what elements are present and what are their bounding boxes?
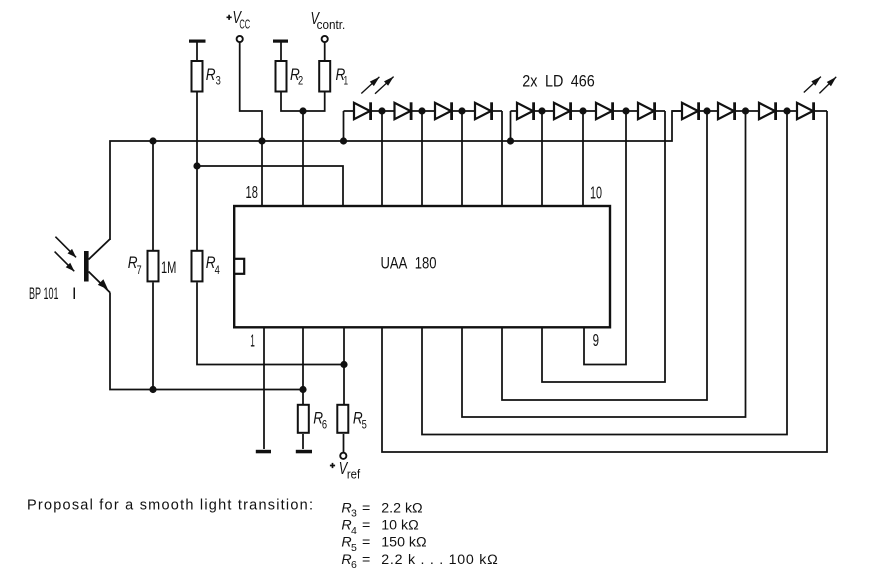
resistor R1 [319, 61, 330, 92]
node LED D9-D10 [703, 107, 710, 114]
wire pin9 loop [584, 111, 626, 365]
node LED D5-D6 [538, 107, 545, 114]
IC U1 UAA180 body [234, 206, 610, 327]
wire R7 top lead [152, 141, 154, 250]
wire pin5 loop [422, 111, 787, 435]
node LED D10-D11 [742, 107, 749, 114]
LED D3 [435, 103, 451, 119]
wire pin1 to ground [263, 326, 265, 449]
node emitter-pin2 [299, 386, 306, 393]
resistor R3 [192, 61, 203, 92]
svg-text:6: 6 [322, 419, 327, 431]
node emitter-R7 [149, 386, 156, 393]
wire emitter net y=389.5 [110, 293, 303, 390]
wire LED group2 anode to rail [510, 111, 512, 141]
svg-text:4: 4 [351, 525, 357, 537]
wire pin15 [381, 111, 383, 206]
svg-text:=: = [362, 535, 370, 551]
svg-text:7: 7 [137, 265, 142, 277]
wire pin8 loop [542, 111, 665, 382]
svg-text:6: 6 [351, 559, 357, 570]
svg-text:18: 18 [246, 182, 258, 202]
svg-text:4: 4 [215, 265, 221, 277]
svg-text:UAA 180: UAA 180 [381, 254, 437, 273]
LED D6 [554, 103, 570, 119]
wire pin17 from R1/R2 node [302, 111, 304, 206]
LED D9 [682, 103, 698, 119]
label +Vcc [227, 15, 232, 20]
svg-text:=: = [362, 501, 370, 517]
node R4-pin3 [340, 361, 347, 368]
terminal +Vref [340, 453, 346, 459]
terminal Vcontr [322, 36, 328, 42]
LED D11 [759, 103, 775, 119]
wire +Vcc terminal drop [240, 42, 262, 142]
svg-text:2x LD 466: 2x LD 466 [522, 73, 595, 91]
resistor R4 [192, 251, 203, 282]
svg-text:2.2 k . . . 100 kΩ: 2.2 k . . . 100 kΩ [381, 552, 498, 568]
svg-text:=: = [362, 518, 370, 534]
node LED D3-D4 [458, 107, 465, 114]
node rail-Vcc [258, 137, 265, 144]
wire VCC rail y=141 [110, 111, 682, 240]
LED D7 [596, 103, 612, 119]
terminal +Vcc [237, 36, 243, 42]
label +Vref [330, 463, 335, 468]
svg-text:Proposal for a smooth light tr: Proposal for a smooth light transition: [27, 498, 313, 514]
node LED D11-D12 [783, 107, 790, 114]
node rail-anode1 [340, 137, 347, 144]
node R1R2-pin17 [299, 107, 306, 114]
wire pin11 [541, 111, 543, 206]
IC U1 index tab [234, 259, 244, 274]
LED D8 [638, 103, 654, 119]
node LED D1-D2 [378, 107, 385, 114]
wire R2 stems [280, 41, 282, 60]
wire pin3 to R5 [343, 326, 345, 404]
wire pin12 [501, 111, 503, 206]
LED emission arrows left pair [361, 77, 379, 94]
wire pin2 to R6 [302, 326, 304, 404]
LED D12 [797, 103, 813, 119]
resistor R6 [298, 405, 309, 433]
resistor R2 [276, 61, 287, 92]
resistor R5 [337, 405, 348, 433]
wire LED group1 anode to rail [343, 111, 345, 141]
node R3R4-pin16 [193, 162, 200, 169]
svg-text:CC: CC [239, 16, 250, 31]
resistor R7 [148, 251, 159, 282]
svg-text:10: 10 [590, 183, 602, 203]
wire pin13 [461, 111, 463, 206]
node LED D2-D3 [418, 107, 425, 114]
LED D1 [354, 103, 370, 119]
svg-text:I: I [72, 285, 77, 303]
LED D2 [395, 103, 411, 119]
svg-text:1: 1 [344, 76, 349, 88]
LED D5 [517, 103, 533, 119]
svg-text:=: = [362, 552, 370, 568]
svg-text:1M: 1M [161, 258, 176, 277]
wire LED chain group1 [344, 110, 503, 112]
wire pin16 from R3/R4 node y=166 [197, 166, 343, 206]
wire LED chain group3 [672, 110, 827, 112]
svg-text:5: 5 [351, 542, 357, 554]
svg-text:3: 3 [216, 76, 221, 88]
wire R6 bottom to ground [302, 434, 304, 449]
svg-text:contr.: contr. [317, 17, 346, 32]
wire pin4 loop [382, 111, 827, 452]
transistor Q1 BP101 collector lead [89, 239, 111, 260]
ground R6 [296, 450, 312, 454]
svg-text:5: 5 [362, 419, 367, 431]
photo arrows into Q1 [55, 237, 76, 258]
svg-text:9: 9 [593, 330, 599, 350]
wire R1 stems [324, 42, 326, 61]
svg-text:1: 1 [250, 331, 255, 351]
svg-text:3: 3 [351, 508, 357, 520]
wire R7 bottom lead [152, 283, 154, 390]
ground pin1 [256, 450, 271, 454]
LED D4 [475, 103, 491, 119]
wire pin6 loop [462, 111, 746, 417]
wire pin7 loop [502, 111, 707, 400]
wire pin10 [582, 111, 584, 206]
wire pin14 [421, 111, 423, 206]
wire R3 bottom to R4 top (crosses rail) [196, 93, 198, 251]
node rail-anode2 [507, 137, 514, 144]
svg-text:10 kΩ: 10 kΩ [381, 518, 418, 534]
svg-text:R: R [206, 66, 216, 84]
node LED D6-D7 [579, 107, 586, 114]
wire LED chain group2 [511, 110, 666, 112]
node rail-R7 [149, 137, 156, 144]
wire R5 bottom to Vref [343, 434, 345, 453]
wire pin18 [261, 141, 263, 206]
node LED D7-D8 [622, 107, 629, 114]
svg-text:2: 2 [298, 76, 303, 88]
svg-text:BP 101: BP 101 [29, 285, 59, 303]
wire R4 bottom to pin3 net [197, 283, 344, 365]
svg-text:ref: ref [347, 467, 361, 482]
transistor Q1 emitter lead with arrow [89, 272, 111, 293]
svg-text:2.2 kΩ: 2.2 kΩ [381, 501, 422, 517]
LED emission arrows right pair [804, 77, 821, 93]
svg-text:150 kΩ: 150 kΩ [381, 535, 426, 551]
wire R3 top bar stem [196, 41, 198, 60]
LED D10 [718, 103, 734, 119]
LEDs D1-D12 [354, 102, 814, 120]
transistor Q1 base bar [84, 251, 89, 282]
